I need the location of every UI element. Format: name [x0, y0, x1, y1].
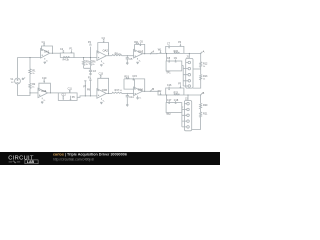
- svg-text:C15: C15: [132, 75, 137, 78]
- voltage source V1: [10, 78, 25, 84]
- logo wave: [9, 161, 21, 163]
- ground (OA2): [100, 65, 102, 67]
- box B1 (input RC network): [60, 47, 74, 61]
- svg-text:R21: R21: [203, 113, 208, 116]
- logo LAB: [25, 160, 38, 164]
- branch: capacitor C14 to ground: [126, 93, 135, 106]
- bias tap P2 above rail: [88, 41, 92, 57]
- wire: OA6 output to node B: [142, 90, 150, 92]
- series resistor R8: [112, 52, 122, 55]
- ground (OA3): [137, 62, 139, 64]
- box BB (output RC network): [166, 83, 184, 96]
- svg-text:B: B: [203, 91, 205, 95]
- svg-text:OA1: OA1: [44, 50, 50, 54]
- probe tick W2 on wire: [158, 90, 162, 95]
- junction dots: [29, 53, 189, 97]
- shunt resistor R6: [89, 58, 96, 66]
- svg-text:R4 2k: R4 2k: [63, 58, 70, 61]
- svg-text:http://circuitlab.com/c49bjx8: http://circuitlab.com/c49bjx8: [53, 157, 94, 161]
- shunt resistor R5: [82, 58, 89, 69]
- hang tap P3: [87, 76, 92, 96]
- svg-text:R19: R19: [124, 76, 129, 79]
- svg-text:R20: R20: [203, 104, 208, 107]
- ground (OA1): [44, 62, 46, 64]
- svg-text:LAB: LAB: [27, 160, 35, 164]
- wire: OA1 output to box B1: [50, 52, 61, 54]
- wire: OA3 output to node A: [142, 53, 150, 55]
- wire: divider top to CH1 rail: [29, 58, 31, 69]
- op-amp OA6: [124, 75, 145, 100]
- box B2 (RC network): [58, 88, 77, 101]
- svg-text:C11: C11: [68, 88, 73, 91]
- svg-text:B: B: [152, 87, 154, 91]
- ground (shunt): [89, 74, 91, 76]
- op-amp OA2: [97, 37, 109, 65]
- wire: V1 top to CH1 input rail: [18, 58, 41, 79]
- svg-text:V-: V-: [46, 60, 48, 62]
- svg-text:OA5: OA5: [102, 88, 108, 92]
- wire: divider mid segment: [29, 74, 31, 84]
- wire: box B2 exit to OA5: [77, 96, 97, 97]
- svg-text:C14: C14: [129, 96, 134, 99]
- node A flag: [150, 50, 155, 55]
- test box TA: [166, 53, 183, 74]
- svg-text:carlos | Triple Acquisition Dr: carlos | Triple Acquisition Driver 30090…: [53, 153, 127, 157]
- svg-text:R22: R22: [174, 50, 179, 53]
- SCHEMATIC: [10, 37, 208, 96]
- series resistor R17: [112, 89, 123, 93]
- svg-text:C16: C16: [167, 84, 172, 87]
- ground (OA4): [41, 102, 43, 104]
- svg-text:V-: V-: [139, 60, 141, 62]
- ground (OA5): [100, 102, 102, 104]
- wire: node A to connector block A: [151, 52, 201, 54]
- op-amp OA4: [38, 77, 50, 102]
- svg-text:C12: C12: [61, 93, 66, 96]
- wire: shunt join: [84, 65, 91, 70]
- svg-text:R23: R23: [174, 92, 179, 95]
- wire: R17 to OA6: [122, 92, 134, 94]
- right column chain B: [192, 91, 208, 129]
- test box TB: [166, 95, 183, 116]
- svg-text:A: A: [152, 50, 154, 54]
- svg-text:C10: C10: [42, 77, 47, 80]
- svg-text:A: A: [203, 49, 205, 53]
- wire: OA4 output to box B2: [48, 92, 59, 94]
- op-amp OA1: [41, 41, 53, 62]
- footer bar: [0, 152, 220, 165]
- capacitor C3: [89, 70, 97, 73]
- svg-text:OA4: OA4: [41, 89, 47, 93]
- resistor R1 (divider upper): [29, 69, 36, 75]
- ground (OA6): [137, 98, 139, 100]
- box BA (output RC network): [166, 41, 184, 54]
- svg-text:V-: V-: [103, 101, 105, 103]
- resistor R2 (divider lower): [29, 83, 36, 88]
- svg-text:C17: C17: [167, 99, 172, 102]
- svg-text:TP2: TP2: [166, 113, 171, 116]
- svg-text:V-: V-: [139, 98, 141, 100]
- connector J2: [182, 95, 192, 131]
- svg-text:V-: V-: [43, 100, 45, 102]
- FOOTER: [0, 152, 220, 165]
- wire: V1 bottom to divider foot: [18, 84, 31, 96]
- op-amp OA3: [134, 40, 145, 62]
- branch: capacitor C5 to ground: [126, 55, 133, 64]
- svg-text:OA3: OA3: [138, 50, 144, 54]
- svg-text:V-: V-: [103, 63, 105, 65]
- svg-text:C13: C13: [99, 73, 104, 76]
- right column chain A: [193, 49, 208, 88]
- svg-text:OA2: OA2: [103, 48, 109, 52]
- wire: R8 to OA3: [122, 55, 134, 57]
- wire: OA5 output: [106, 92, 112, 94]
- svg-text:R11: R11: [134, 41, 139, 44]
- op-amp OA5: [97, 73, 109, 103]
- node: divider tap to CH2: [30, 92, 38, 94]
- connector J1: [183, 53, 193, 88]
- probe tick W1 on wire: [158, 49, 162, 54]
- hang tap T1: [83, 81, 87, 96]
- wire: OA2 output: [106, 55, 112, 57]
- wire: box B1 to OA2 input: [60, 57, 97, 59]
- wire: node B to connector block B: [150, 91, 200, 95]
- svg-text:C18: C18: [174, 99, 179, 102]
- svg-text:TP1: TP1: [166, 71, 171, 74]
- node B flag: [150, 87, 155, 92]
